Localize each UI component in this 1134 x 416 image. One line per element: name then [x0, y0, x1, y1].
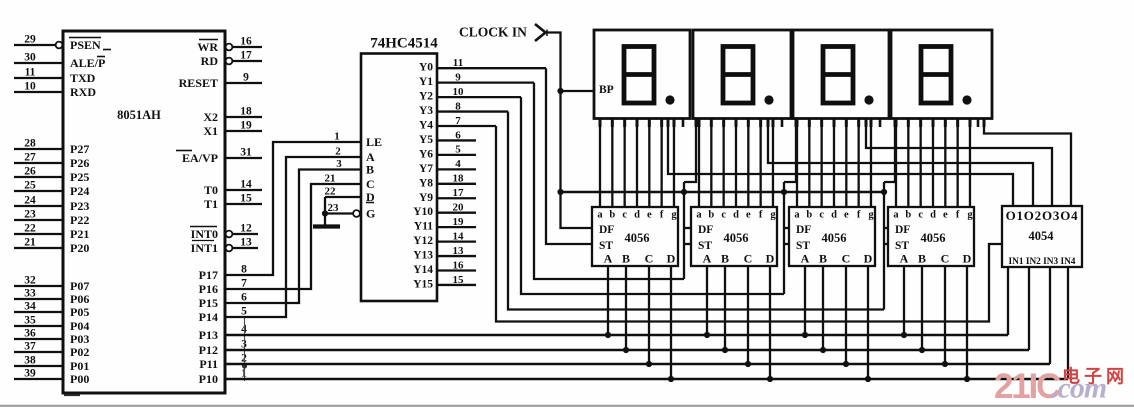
- wire 4054 IN3 to P11 bus: [1049, 267, 1051, 364]
- svg-text:19: 19: [453, 216, 465, 228]
- svg-text:17: 17: [240, 50, 252, 62]
- svg-text:b: b: [905, 210, 911, 221]
- svg-text:c: c: [918, 210, 923, 221]
- svg-text:P00: P00: [70, 372, 89, 386]
- svg-text:1: 1: [334, 131, 340, 143]
- wire DF/ST feed 4056 #2: [683, 182, 685, 279]
- 8051 pin 22 P21 (left): [14, 233, 63, 235]
- wire display DS3 dp to 4054 O3: [866, 119, 1052, 207]
- 8051 pin 17 RD (right): [226, 58, 233, 65]
- wire display DS4 segment f to 4056: [957, 119, 959, 208]
- display DS3 decimal point: [864, 95, 873, 104]
- wire 4056 #1 pin B to P12 bus: [625, 266, 627, 350]
- wire 4056 #4 pin C to P11 bus: [944, 266, 946, 364]
- wire BP display DS1: [561, 90, 595, 92]
- svg-text:D: D: [963, 252, 972, 266]
- svg-text:d: d: [634, 210, 640, 221]
- svg-text:P16: P16: [199, 282, 218, 296]
- 8051 pin 28 P27 (left): [14, 148, 63, 150]
- wire display DS2 segment e to 4056: [747, 119, 749, 208]
- wire display DS1 segment b to 4056: [611, 119, 613, 208]
- display DS1 figure-8 segments: [624, 47, 654, 104]
- junction 4056 #4 C on bus: [942, 361, 948, 367]
- svg-text:11: 11: [25, 67, 36, 79]
- 8051 pin 24 P23 (left): [14, 205, 63, 207]
- svg-text:B: B: [918, 252, 926, 266]
- wire 4056 #2 pin D to P10 bus: [769, 266, 771, 379]
- wire 4056 #4 pin D to P10 bus: [966, 266, 968, 379]
- svg-text:P13: P13: [199, 328, 218, 342]
- svg-text:g: g: [770, 210, 776, 221]
- svg-text:7: 7: [241, 278, 247, 290]
- wire 4056 #4 pin A to P13 bus: [903, 266, 905, 335]
- svg-text:BP: BP: [599, 84, 614, 96]
- svg-text:Y10: Y10: [413, 206, 433, 218]
- 8051 pin 30 ALE/P (left): [14, 62, 63, 64]
- junction 4056 #3 B on bus: [820, 347, 826, 353]
- svg-text:11: 11: [453, 57, 463, 69]
- svg-text:c: c: [721, 210, 726, 221]
- svg-text:23: 23: [24, 209, 36, 221]
- IC 4056 LCD decoder/driver #4 body: [888, 207, 974, 266]
- wire 4056 #4 pin B to P12 bus: [921, 266, 923, 350]
- svg-text:Y14: Y14: [413, 264, 433, 276]
- wire display DS4 segment e to 4056: [944, 119, 946, 208]
- 8051 pin 26 P25 (left): [14, 176, 63, 178]
- 8051 pin 34 P05 (left): [14, 311, 63, 313]
- junction 4056 #1 A on bus: [605, 332, 611, 338]
- svg-text:P25: P25: [70, 170, 89, 184]
- svg-text:74HC4514: 74HC4514: [370, 36, 438, 52]
- wire display DS1 dp to 4054 O1: [668, 119, 1013, 207]
- wire DF/ST feed 4056 #4: [883, 182, 885, 310]
- wire P14 to A (8051 to 74HC4514): [225, 157, 361, 317]
- svg-text:34: 34: [24, 301, 36, 313]
- svg-text:4056: 4056: [921, 231, 946, 245]
- svg-text:INT1: INT1: [191, 241, 218, 255]
- svg-text:d: d: [930, 210, 936, 221]
- display DS2 unconnected pin stub: [781, 119, 784, 128]
- svg-text:P01: P01: [70, 359, 89, 373]
- wire P17 to LE (8051 to 74HC4514): [225, 142, 361, 275]
- svg-text:B: B: [819, 252, 827, 266]
- svg-text:3: 3: [336, 158, 342, 170]
- IC 4056 LCD decoder/driver #2 body: [691, 207, 777, 266]
- svg-text:10: 10: [453, 86, 465, 98]
- wire DF distribution line: [561, 191, 885, 194]
- svg-text:P02: P02: [70, 345, 89, 359]
- svg-text:e: e: [943, 210, 948, 221]
- svg-text:RD: RD: [201, 54, 219, 68]
- svg-text:c: c: [622, 210, 627, 221]
- display DS1 unconnected pin stub: [682, 119, 685, 128]
- svg-text:b: b: [609, 210, 615, 221]
- junction DF net chip 3: [781, 189, 787, 195]
- wire DF/ST feed 4056 #3: [783, 182, 785, 294]
- svg-text:6: 6: [241, 292, 247, 304]
- svg-text:B: B: [366, 163, 374, 177]
- ground symbol: [324, 214, 326, 226]
- svg-text:P07: P07: [70, 279, 89, 293]
- svg-text:32: 32: [24, 275, 36, 287]
- svg-text:4056: 4056: [822, 231, 847, 245]
- junction DF net chip 4: [881, 189, 887, 195]
- LCD display DS1 body: [594, 30, 690, 119]
- svg-text:P03: P03: [70, 332, 89, 346]
- wire display DS3 segment a to 4056: [796, 119, 798, 208]
- svg-text:15: 15: [240, 193, 252, 205]
- svg-text:CLOCK IN: CLOCK IN: [459, 25, 527, 40]
- 8051 pin 23 P22 (left): [14, 219, 63, 221]
- svg-text:6: 6: [455, 129, 461, 141]
- svg-text:c: c: [819, 210, 824, 221]
- LCD display DS4 body: [891, 30, 992, 119]
- svg-text:DF: DF: [796, 224, 811, 236]
- junction D-G-ground: [322, 210, 328, 216]
- wire 4056 #1 pin A to P13 bus: [607, 266, 609, 335]
- IC U1 8051AH microcontroller body: [63, 31, 225, 393]
- 8051 pin 39 P00 (left): [14, 378, 63, 380]
- wire display DS4 segment d to 4056: [932, 119, 934, 208]
- svg-text:4056: 4056: [625, 231, 650, 245]
- svg-text:X1: X1: [203, 124, 218, 138]
- wire display DS3 segment c to 4056: [821, 119, 823, 208]
- 8051 pin 15 T1 (right): [225, 203, 262, 205]
- svg-text:EA/VP: EA/VP: [182, 151, 218, 165]
- svg-text:e: e: [647, 210, 652, 221]
- junction 4056 #1 D on bus: [668, 376, 674, 382]
- wire display DS1 segment c to 4056: [624, 119, 626, 208]
- svg-text:G: G: [366, 207, 375, 221]
- svg-text:d: d: [831, 210, 837, 221]
- 8051 pin 33 P06 (left): [14, 298, 63, 300]
- junction 4056 #1 C on bus: [646, 361, 652, 367]
- wire pin22 D to ground junction: [324, 197, 326, 214]
- svg-text:C: C: [941, 252, 950, 266]
- svg-text:C: C: [744, 252, 753, 266]
- junction 4056 #3 A on bus: [802, 332, 808, 338]
- svg-text:8051AH: 8051AH: [117, 108, 161, 122]
- svg-text:7: 7: [455, 115, 461, 127]
- svg-text:P12: P12: [199, 343, 218, 357]
- display DS3 figure-8 segments: [823, 47, 853, 104]
- svg-text:DF: DF: [599, 224, 614, 236]
- svg-text:P10: P10: [199, 372, 218, 386]
- 8051 pin 32 P07 (left): [14, 285, 63, 287]
- svg-text:Y15: Y15: [413, 278, 433, 290]
- wire Y3 to ST of 4056 #4: [508, 112, 884, 310]
- svg-text:X2: X2: [203, 110, 218, 124]
- svg-text:ST: ST: [895, 240, 909, 252]
- svg-text:T0: T0: [204, 183, 218, 197]
- wire display DS1 segment e to 4056: [648, 119, 650, 208]
- wire 4056 #2 pin C to P11 bus: [747, 266, 749, 364]
- svg-text:g: g: [868, 210, 874, 221]
- svg-text:Y8: Y8: [419, 177, 433, 189]
- svg-text:Y13: Y13: [413, 250, 433, 262]
- wire 4056 #1 pin C to P11 bus: [648, 266, 650, 364]
- junction 4056 #1 B on bus: [623, 347, 629, 353]
- svg-text:WR: WR: [197, 40, 218, 54]
- svg-text:12: 12: [240, 223, 252, 235]
- svg-text:ST: ST: [599, 240, 613, 252]
- svg-text:B: B: [721, 252, 729, 266]
- wire Y4 to ST of 4054: [496, 126, 1002, 322]
- display DS2 decimal point: [764, 95, 773, 104]
- svg-text:a: a: [597, 210, 603, 221]
- svg-text:g: g: [671, 210, 677, 221]
- display DS4 unconnected pin stub: [977, 119, 980, 128]
- 8051 pin 37 P02 (left): [14, 351, 63, 353]
- 8051 pin 27 P26 (left): [14, 162, 63, 164]
- svg-text:2: 2: [335, 146, 341, 158]
- wire 4056 #3 pin B to P12 bus: [822, 266, 824, 350]
- svg-text:19: 19: [240, 120, 252, 132]
- svg-text:21: 21: [325, 173, 336, 185]
- svg-text:D: D: [766, 252, 775, 266]
- svg-text:31: 31: [240, 147, 252, 159]
- svg-text:15: 15: [453, 274, 465, 286]
- svg-text:16: 16: [240, 36, 252, 48]
- svg-text:17: 17: [453, 187, 465, 199]
- display DS4 decimal point: [962, 95, 971, 104]
- 8051 pin 12 INT0 (right): [226, 231, 233, 238]
- svg-text:A: A: [801, 252, 810, 266]
- svg-text:a: a: [893, 210, 899, 221]
- svg-text:8: 8: [455, 100, 461, 112]
- junction CLOCK-BP: [557, 88, 563, 94]
- wire P10 data bus line: [225, 378, 1068, 381]
- wire display DS4 dp to 4054 O4: [984, 119, 1071, 207]
- svg-text:LE: LE: [366, 135, 382, 149]
- 8051 pin 16 WR (right): [226, 44, 233, 51]
- svg-text:Y4: Y4: [419, 120, 433, 132]
- svg-text:C: C: [366, 177, 375, 191]
- svg-text:C: C: [842, 252, 851, 266]
- svg-text:D: D: [667, 252, 676, 266]
- svg-text:e: e: [844, 210, 849, 221]
- wire display DS3 segment f to 4056: [858, 119, 860, 208]
- wire display DS4 segment g to 4056: [969, 119, 971, 208]
- junction 4056 #2 A on bus: [704, 332, 710, 338]
- 8051 pin 29 PSEN (left): [14, 44, 55, 46]
- wire 4054 IN1 to P13 bus: [1007, 267, 1009, 335]
- 8051 pin 35 P04 (left): [14, 325, 63, 327]
- svg-text:f: f: [660, 210, 664, 221]
- wire 4056 #3 pin D to P10 bus: [867, 266, 869, 379]
- svg-text:18: 18: [453, 173, 465, 185]
- wire display DS2 segment f to 4056: [760, 119, 762, 208]
- svg-text:9: 9: [455, 71, 461, 83]
- wire display DS1 segment f to 4056: [661, 119, 663, 208]
- svg-text:16: 16: [453, 259, 465, 271]
- wire P11 data bus line: [225, 363, 1050, 366]
- svg-text:ST: ST: [796, 240, 810, 252]
- svg-text:Y9: Y9: [419, 192, 433, 204]
- wire display DS2 segment g to 4056: [772, 119, 774, 208]
- 8051 pin 10 RXD (left): [14, 91, 63, 93]
- LCD display DS3 body: [793, 30, 889, 119]
- svg-text:38: 38: [24, 355, 36, 367]
- svg-text:P22: P22: [70, 213, 89, 227]
- LCD display DS2 body: [693, 30, 791, 119]
- svg-text:Y2: Y2: [419, 91, 433, 103]
- svg-text:P15: P15: [199, 296, 218, 310]
- svg-text:P06: P06: [70, 292, 89, 306]
- svg-text:21: 21: [24, 237, 36, 249]
- junction CLOCK-DF line: [557, 189, 563, 195]
- svg-text:P14: P14: [199, 310, 218, 324]
- wire display DS4 BP to DF net: [884, 119, 895, 183]
- svg-text:P27: P27: [70, 142, 89, 156]
- svg-text:37: 37: [24, 341, 36, 353]
- svg-text:27: 27: [24, 152, 36, 164]
- wire display DS4 segment a to 4056: [895, 119, 897, 208]
- svg-text:Y12: Y12: [413, 235, 433, 247]
- svg-text:14: 14: [453, 230, 465, 242]
- svg-text:P11: P11: [199, 357, 218, 371]
- junction 4056 #4 D on bus: [964, 376, 970, 382]
- wire 4056 #2 pin A to P13 bus: [706, 266, 708, 335]
- svg-text:B: B: [622, 252, 630, 266]
- svg-text:f: f: [956, 210, 960, 221]
- svg-text:b: b: [806, 210, 812, 221]
- svg-text:A: A: [900, 252, 909, 266]
- display DS1 decimal point: [665, 95, 674, 104]
- wire CLOCK IN to BP/DF net vertical: [546, 33, 592, 229]
- svg-text:P04: P04: [70, 319, 89, 333]
- junction 4056 #4 B on bus: [919, 347, 925, 353]
- wire display DS3 segment e to 4056: [845, 119, 847, 208]
- wire 4056 #1 pin D to P10 bus: [670, 266, 672, 379]
- svg-text:20: 20: [453, 202, 465, 214]
- svg-text:35: 35: [24, 315, 36, 327]
- wire 4056 #3 pin A to P13 bus: [804, 266, 806, 335]
- IC U2 74HC4514 4-to-16 decoder body: [361, 54, 437, 302]
- svg-text:P20: P20: [70, 241, 89, 255]
- display DS4 figure-8 segments: [921, 47, 951, 104]
- svg-text:Y1: Y1: [419, 76, 433, 88]
- svg-text:.com: .com: [1051, 372, 1106, 405]
- wire display DS3 segment d to 4056: [833, 119, 835, 208]
- svg-text:4: 4: [455, 158, 461, 170]
- junction 4056 #2 B on bus: [722, 347, 728, 353]
- junction 4056 #2 C on bus: [745, 361, 751, 367]
- svg-text:C: C: [645, 252, 654, 266]
- svg-text:PSEN: PSEN: [70, 38, 101, 52]
- wire display DS2 segment a to 4056: [698, 119, 700, 208]
- wire P13 data bus line: [225, 334, 1008, 337]
- svg-text:DF: DF: [698, 224, 713, 236]
- wire display DS1 segment d to 4056: [636, 119, 638, 208]
- svg-text:P21: P21: [70, 227, 89, 241]
- svg-text:4056: 4056: [724, 231, 749, 245]
- svg-text:4054: 4054: [1029, 229, 1055, 243]
- wire display DS1 segment g to 4056: [673, 119, 675, 208]
- wire display DS3 segment g to 4056: [870, 119, 872, 208]
- 8051 pin 25 P24 (left): [14, 190, 63, 192]
- svg-text:TXD: TXD: [70, 71, 96, 85]
- svg-text:a: a: [696, 210, 702, 221]
- wire Y0 to ST of 4056 #1: [546, 68, 592, 244]
- svg-text:26: 26: [24, 166, 36, 178]
- svg-text:14: 14: [240, 179, 252, 191]
- wire display DS2 segment d to 4056: [735, 119, 737, 208]
- svg-text:P05: P05: [70, 305, 89, 319]
- svg-text:D: D: [864, 252, 873, 266]
- wire display DS4 segment b to 4056: [907, 119, 909, 208]
- svg-text:13: 13: [453, 245, 465, 257]
- svg-text:INT0: INT0: [191, 227, 218, 241]
- display DS3 unconnected pin stub: [879, 119, 882, 128]
- svg-text:b: b: [708, 210, 714, 221]
- svg-text:O1O2O3O4: O1O2O3O4: [1006, 208, 1079, 223]
- junction 4056 #4 A on bus: [901, 332, 907, 338]
- scan smudge below 8051: [64, 394, 80, 396]
- wire display DS1 segment a to 4056: [599, 119, 601, 208]
- svg-text:29: 29: [24, 34, 36, 46]
- wire P15 to B (8051 to 74HC4514): [225, 170, 361, 304]
- scan edge band bottom: [0, 405, 1134, 407]
- IC 4056 LCD decoder/driver #3 body: [789, 207, 875, 266]
- svg-text:d: d: [733, 210, 739, 221]
- svg-text:g: g: [967, 210, 973, 221]
- IC 4054 LCD driver body: [1002, 206, 1082, 267]
- 8051 pin 38 P01 (left): [14, 365, 63, 367]
- IC 4056 LCD decoder/driver #1 body: [592, 207, 678, 266]
- wire Y1 to ST of 4056 #2: [534, 83, 684, 279]
- svg-text:18: 18: [240, 106, 252, 118]
- wire display DS2 segment c to 4056: [723, 119, 725, 208]
- svg-text:22: 22: [24, 223, 36, 235]
- wire P16 to C (8051 to 74HC4514): [225, 184, 361, 289]
- wire display DS2 dp to 4054 O2: [768, 119, 1033, 207]
- 8051 pin 36 P03 (left): [14, 338, 63, 340]
- svg-text:A: A: [604, 252, 613, 266]
- wire P12 data bus line: [225, 349, 1029, 352]
- svg-text:24: 24: [24, 195, 36, 207]
- svg-text:e: e: [746, 210, 751, 221]
- svg-text:25: 25: [24, 180, 36, 192]
- wire display DS3 BP to DF net: [784, 119, 796, 183]
- svg-text:36: 36: [24, 328, 36, 340]
- svg-text:Y3: Y3: [419, 105, 433, 117]
- junction DF net chip 2: [681, 189, 687, 195]
- svg-text:T1: T1: [204, 197, 218, 211]
- 8051 pin 11 TXD (left): [14, 77, 63, 79]
- svg-text:A: A: [703, 252, 712, 266]
- svg-text:28: 28: [24, 138, 36, 150]
- svg-text:Y5: Y5: [419, 134, 433, 146]
- svg-text:5: 5: [455, 144, 461, 156]
- 8051 pin 9 RESET (right): [225, 82, 262, 84]
- svg-text:IN1 IN2 IN3 IN4: IN1 IN2 IN3 IN4: [1009, 257, 1076, 267]
- display DS2 figure-8 segments: [723, 47, 753, 104]
- wire 4054 IN2 to P12 bus: [1028, 267, 1030, 350]
- svg-text:33: 33: [24, 288, 36, 300]
- svg-text:39: 39: [24, 368, 36, 380]
- svg-text:Y0: Y0: [419, 62, 433, 74]
- svg-text:10: 10: [24, 81, 36, 93]
- svg-text:f: f: [857, 210, 861, 221]
- svg-text:P26: P26: [70, 156, 89, 170]
- svg-text:RXD: RXD: [70, 85, 96, 99]
- svg-text:P23: P23: [70, 199, 89, 213]
- svg-text:5: 5: [241, 306, 247, 318]
- svg-text:22: 22: [325, 186, 337, 198]
- svg-text:f: f: [759, 210, 763, 221]
- wire Y2 to ST of 4056 #3: [521, 97, 784, 294]
